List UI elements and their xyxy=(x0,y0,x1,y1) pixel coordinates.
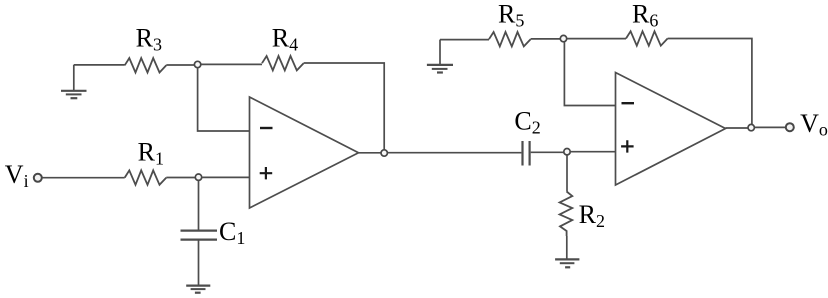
U1 non-inverting (+) symbol xyxy=(260,167,273,179)
wire node A down to U1 inverting input xyxy=(198,68,250,131)
resistor R5 xyxy=(489,32,531,46)
wire node C to U2 non-inverting input xyxy=(571,151,616,153)
ground G5 (below R2) xyxy=(555,259,579,267)
node A (junction R3 / R4 / U1 inverting input) xyxy=(194,61,200,67)
svg-text:C1: C1 xyxy=(219,217,245,248)
wire R2 to ground G5 xyxy=(566,236,568,259)
svg-text:R2: R2 xyxy=(579,200,605,231)
node D (junction R5 / R6 / U2 inverting input) xyxy=(560,35,566,41)
wire node B to U1 non-inverting input xyxy=(202,176,249,178)
wire R5 to node D xyxy=(531,38,560,40)
wire node D down to U2 inverting input xyxy=(564,42,615,105)
resistor R1 xyxy=(125,170,167,184)
wire node D to R6 xyxy=(567,38,626,40)
wire node C down to R2 xyxy=(566,155,568,191)
capacitor C2 xyxy=(523,141,530,166)
svg-text:R4: R4 xyxy=(272,24,298,55)
U2 non-inverting (+) symbol xyxy=(621,140,634,152)
svg-text:Vi: Vi xyxy=(5,160,29,191)
U1 inverting (-) symbol xyxy=(260,127,273,129)
svg-text:R6: R6 xyxy=(632,0,658,31)
node E (U2 output junction with R6 feedback) xyxy=(748,124,754,130)
wire C1 to ground G2 xyxy=(198,240,200,286)
wire R4 to U1 output node (feedback, corner down) xyxy=(304,63,385,150)
resistor R4 xyxy=(262,56,304,70)
op-amp U2 xyxy=(616,73,726,186)
svg-text:Vo: Vo xyxy=(800,109,828,140)
svg-text:R5: R5 xyxy=(498,0,524,30)
resistor R6 xyxy=(626,31,668,45)
op-amp U1 xyxy=(250,97,359,208)
wire U1 output node to C2 xyxy=(388,152,522,154)
U2 inverting (-) symbol xyxy=(622,102,635,104)
wire ground G4 to R5 xyxy=(440,39,489,41)
resistor R2 xyxy=(560,192,573,237)
wire R6 to U2 output node (feedback, corner down) xyxy=(668,39,752,125)
svg-text:R1: R1 xyxy=(138,138,164,169)
svg-text:R3: R3 xyxy=(136,24,162,55)
wire node B down to C1 xyxy=(198,181,200,230)
node U1 output (junction with R4 feedback) xyxy=(381,150,387,156)
wire C2 to node C xyxy=(531,151,564,153)
terminal Vi xyxy=(34,174,42,182)
wire R3 to node A xyxy=(166,64,194,66)
wire R1 to node B xyxy=(166,177,195,179)
ground G1 (left of R3) xyxy=(61,65,87,98)
ground G4 (left of R5) xyxy=(427,40,453,73)
capacitor C1 xyxy=(181,231,218,240)
svg-text:C2: C2 xyxy=(514,107,540,138)
node C (junction C2 / R2 / U2 + input) xyxy=(564,149,570,155)
node B (junction R1 / C1 / U1 + input) xyxy=(195,174,201,180)
wire U1 output to output node xyxy=(359,152,381,154)
wire U2 output to node E xyxy=(726,127,748,129)
ground G2 (below C1) xyxy=(186,286,210,293)
resistor R3 xyxy=(125,58,167,72)
terminal Vo xyxy=(786,123,794,131)
wire Vi to R1 xyxy=(42,177,124,179)
wire node A to R4 xyxy=(201,63,262,65)
wire node E to terminal Vo xyxy=(755,126,785,128)
wire ground G1 to R3 xyxy=(74,64,125,66)
